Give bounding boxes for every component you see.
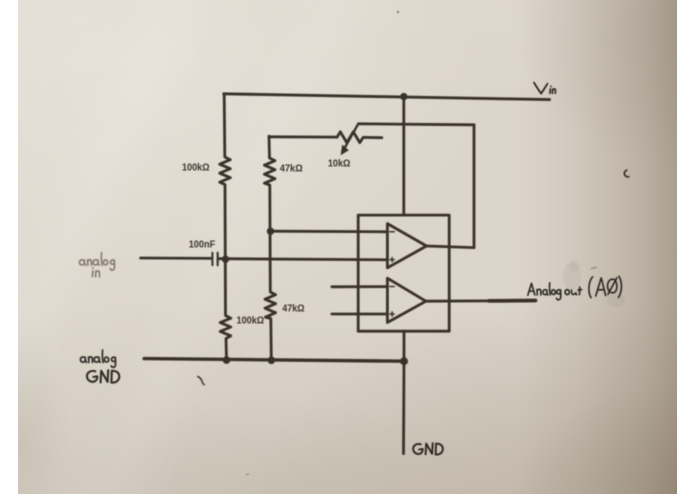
pen mark squiggle bbox=[198, 377, 204, 385]
smudge left of paren bbox=[563, 262, 581, 290]
op-amp package box bbox=[358, 215, 449, 331]
wire Vin to package bbox=[402, 97, 405, 216]
potentiometer RV1 wiper arrow bbox=[345, 124, 358, 148]
wire analog GND rail bbox=[144, 359, 404, 362]
junction node A feedback divider bbox=[267, 228, 274, 235]
wire wiper to feedback bbox=[358, 124, 474, 125]
junction node GND rail 3 bbox=[400, 357, 408, 365]
wire ground stub bbox=[402, 361, 405, 453]
wire capacitor to op-amp U1A + input bbox=[219, 259, 387, 260]
wire left vertical with resistors R1 R3 bbox=[220, 94, 231, 360]
svg-text:47kΩ: 47kΩ bbox=[282, 304, 304, 315]
wire op-amp U1B output (Analog out) bbox=[426, 299, 536, 302]
wire second vertical with resistors R2 R4 bbox=[264, 136, 275, 360]
wire analog in bbox=[141, 257, 211, 260]
speck top bbox=[397, 11, 399, 13]
handwritten label Vin bbox=[534, 83, 556, 94]
junction node Vin bbox=[400, 93, 407, 100]
handwritten label analog (GND), pen bbox=[80, 350, 115, 367]
wire op-amp U1B + input stub bbox=[332, 313, 388, 316]
pen dash above paren bbox=[591, 267, 597, 269]
wire node A to op-amp U1A - input bbox=[271, 230, 388, 233]
op-amp U1A triangle bbox=[387, 224, 426, 268]
wire op-amp U1B - input stub bbox=[332, 285, 388, 288]
svg-text:100kΩ: 100kΩ bbox=[182, 162, 210, 173]
handwritten label GND (bottom) bbox=[413, 443, 443, 454]
junction node GND rail 1 bbox=[223, 356, 231, 364]
wire op-amp U1A output bbox=[427, 246, 475, 248]
wire Vin top rail bbox=[224, 94, 550, 100]
svg-text:100kΩ: 100kΩ bbox=[237, 316, 265, 327]
svg-text:47kΩ: 47kΩ bbox=[280, 163, 303, 174]
op-amp U1B triangle bbox=[387, 278, 426, 322]
wire feedback vertical bbox=[473, 125, 476, 248]
wire pot left bbox=[269, 135, 337, 138]
smudge below paren bbox=[607, 293, 625, 307]
svg-text:10kΩ: 10kΩ bbox=[328, 159, 350, 170]
op-amp input polarity marks bbox=[390, 232, 394, 316]
svg-text:100nF: 100nF bbox=[189, 239, 216, 250]
pen mark small c bbox=[624, 170, 629, 177]
handwritten label Analog out (A0) bbox=[528, 276, 622, 300]
capacitor C1 plates bbox=[211, 252, 218, 266]
junction node capacitor/divider bbox=[222, 256, 229, 263]
potentiometer RV1 zigzag bbox=[337, 132, 382, 143]
handwritten label analog (in), pencil bbox=[79, 253, 114, 277]
junction node GND rail 2 bbox=[268, 357, 276, 365]
handwritten label GND (analog) bbox=[87, 370, 119, 382]
potentiometer RV1 arrowhead bbox=[341, 145, 349, 156]
speck bottom bbox=[246, 474, 249, 475]
wire package to ground rail bbox=[403, 331, 406, 361]
